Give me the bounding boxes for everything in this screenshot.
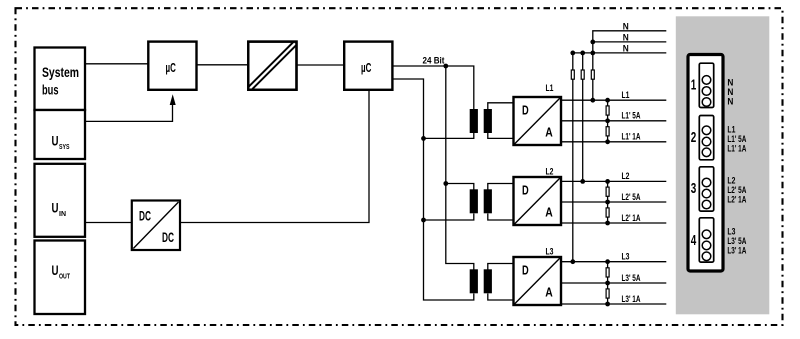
- pin labels group 2: [727, 125, 746, 154]
- svg-text:L3: L3: [727, 227, 735, 237]
- svg-text:L1: L1: [546, 83, 554, 93]
- svg-text:N: N: [623, 44, 629, 54]
- svg-text:U: U: [52, 262, 59, 278]
- node L1 junctions: [590, 98, 610, 144]
- svg-text:L2' 1A: L2' 1A: [622, 213, 641, 223]
- wire uC2 second output bus: [393, 79, 474, 300]
- svg-text:U: U: [52, 133, 59, 149]
- wire uC1 to isolator: [197, 64, 249, 66]
- terminal group 2: [691, 116, 714, 160]
- svg-text:µC: µC: [166, 60, 177, 75]
- wire L2: [561, 171, 666, 181]
- svg-text:N: N: [727, 78, 733, 88]
- wire isolator to uC2: [297, 64, 345, 66]
- wire N2: [593, 33, 667, 43]
- node L2 junctions: [580, 179, 610, 225]
- svg-text:SYS: SYS: [59, 144, 70, 151]
- pin labels group 4: [727, 227, 746, 256]
- transformer T3: [470, 269, 492, 293]
- svg-text:4: 4: [691, 232, 697, 249]
- resistor R4: [606, 106, 609, 115]
- wire uC2 24 Bit output: [393, 55, 474, 109]
- svg-text:L3' 5A: L3' 5A: [727, 236, 746, 246]
- terminal group 4: [691, 218, 714, 262]
- D/A converter U5 (L3): [514, 247, 562, 305]
- svg-text:OUT: OUT: [59, 274, 71, 281]
- svg-text:System: System: [42, 65, 79, 80]
- svg-text:L1' 1A: L1' 1A: [622, 132, 641, 142]
- resistor R3: [591, 70, 594, 79]
- svg-text:µC: µC: [361, 60, 372, 75]
- connector block X1: [688, 55, 723, 272]
- box USYS: [35, 110, 86, 159]
- box UIN: [35, 164, 86, 237]
- svg-text:L3' 1A: L3' 1A: [727, 246, 746, 256]
- wire N drop to L3: [572, 53, 574, 262]
- svg-text:L2' 5A: L2' 5A: [622, 192, 641, 202]
- wire DC/DC to uC2: [181, 90, 370, 223]
- wire T3 secondary: [488, 264, 513, 301]
- svg-text:L1: L1: [622, 90, 630, 100]
- wire T2 secondary: [488, 184, 513, 221]
- svg-text:bus: bus: [42, 83, 59, 98]
- DC/DC converter: [132, 201, 180, 251]
- node L3 junctions: [570, 259, 610, 306]
- svg-text:3: 3: [691, 180, 697, 197]
- wire L3 shunt chain: [607, 262, 609, 304]
- pin labels group 1: [727, 78, 733, 107]
- terminal group 1: [691, 63, 714, 107]
- resistor R9: [606, 289, 609, 298]
- svg-text:A: A: [545, 125, 553, 140]
- svg-text:L2: L2: [622, 171, 630, 181]
- node primary bus junctions: [421, 136, 448, 222]
- svg-text:L3: L3: [546, 247, 554, 257]
- pin labels group 3: [727, 176, 746, 205]
- box System bus: [35, 48, 86, 111]
- wire L1' 5A: [561, 111, 666, 121]
- wire N drop to L2: [582, 53, 584, 182]
- svg-text:DC: DC: [139, 208, 151, 224]
- D/A converter U3 (L1): [514, 83, 562, 145]
- svg-text:L2' 5A: L2' 5A: [727, 185, 746, 195]
- resistor R5: [606, 127, 609, 136]
- svg-text:IN: IN: [59, 211, 66, 218]
- wire UIN to DC/DC: [85, 222, 131, 224]
- svg-text:L1' 5A: L1' 5A: [622, 111, 641, 121]
- svg-text:N: N: [727, 97, 733, 107]
- svg-text:U: U: [52, 200, 59, 216]
- resistor R6: [606, 187, 609, 196]
- svg-text:L3' 5A: L3' 5A: [622, 273, 641, 283]
- svg-text:L2: L2: [727, 176, 735, 186]
- svg-text:D: D: [522, 183, 529, 198]
- svg-text:L2' 1A: L2' 1A: [727, 195, 746, 205]
- op-amp uC2: [344, 42, 392, 90]
- resistor R7: [606, 208, 609, 217]
- wire L2 shunt chain: [607, 181, 609, 223]
- wire L1 shunt chain: [607, 100, 609, 142]
- resistor R2: [581, 70, 584, 79]
- svg-text:D: D: [522, 263, 529, 278]
- wire N1: [593, 21, 667, 100]
- wire 24 Bit bus down: [446, 66, 474, 270]
- svg-text:A: A: [545, 205, 553, 220]
- svg-text:L2: L2: [546, 167, 554, 177]
- svg-text:1: 1: [691, 77, 697, 94]
- op-amp uC1: [148, 42, 196, 90]
- node N junctions: [570, 40, 595, 56]
- svg-text:L3' 1A: L3' 1A: [622, 294, 641, 304]
- svg-text:N: N: [727, 87, 733, 97]
- svg-text:L3: L3: [622, 252, 630, 262]
- wire USYS to uC1 with arrow: [85, 94, 176, 121]
- wire L3' 5A: [561, 273, 666, 283]
- gray terminal panel: [676, 16, 770, 314]
- svg-text:D: D: [522, 103, 529, 118]
- resistor R1: [571, 70, 574, 79]
- wire T1 secondary: [488, 103, 513, 139]
- wire L1: [561, 90, 666, 100]
- svg-text:N: N: [623, 21, 629, 31]
- svg-text:L1' 5A: L1' 5A: [727, 134, 746, 144]
- svg-text:DC: DC: [162, 229, 174, 245]
- svg-text:L1' 1A: L1' 1A: [727, 144, 746, 154]
- wire L2' 5A: [561, 192, 666, 202]
- node 24 Bit junction: [443, 64, 448, 69]
- transformer T1: [470, 109, 492, 133]
- wire L3: [561, 252, 666, 262]
- svg-text:A: A: [545, 285, 553, 300]
- svg-text:2: 2: [691, 129, 697, 146]
- wire L2' 1A: [561, 213, 666, 223]
- D/A converter U4 (L2): [514, 167, 562, 225]
- box UOUT: [35, 241, 86, 315]
- svg-text:N: N: [623, 33, 629, 43]
- wire L3' 1A: [561, 294, 666, 304]
- resistor R8: [606, 268, 609, 277]
- wire L1' 1A: [561, 132, 666, 142]
- isolator barrier box: [248, 42, 296, 90]
- wire System bus to uC1: [85, 63, 148, 65]
- svg-text:24 Bit: 24 Bit: [423, 55, 445, 65]
- wire N3: [573, 44, 667, 54]
- svg-text:L1: L1: [727, 125, 735, 135]
- transformer T2: [470, 189, 492, 213]
- terminal group 3: [691, 167, 714, 211]
